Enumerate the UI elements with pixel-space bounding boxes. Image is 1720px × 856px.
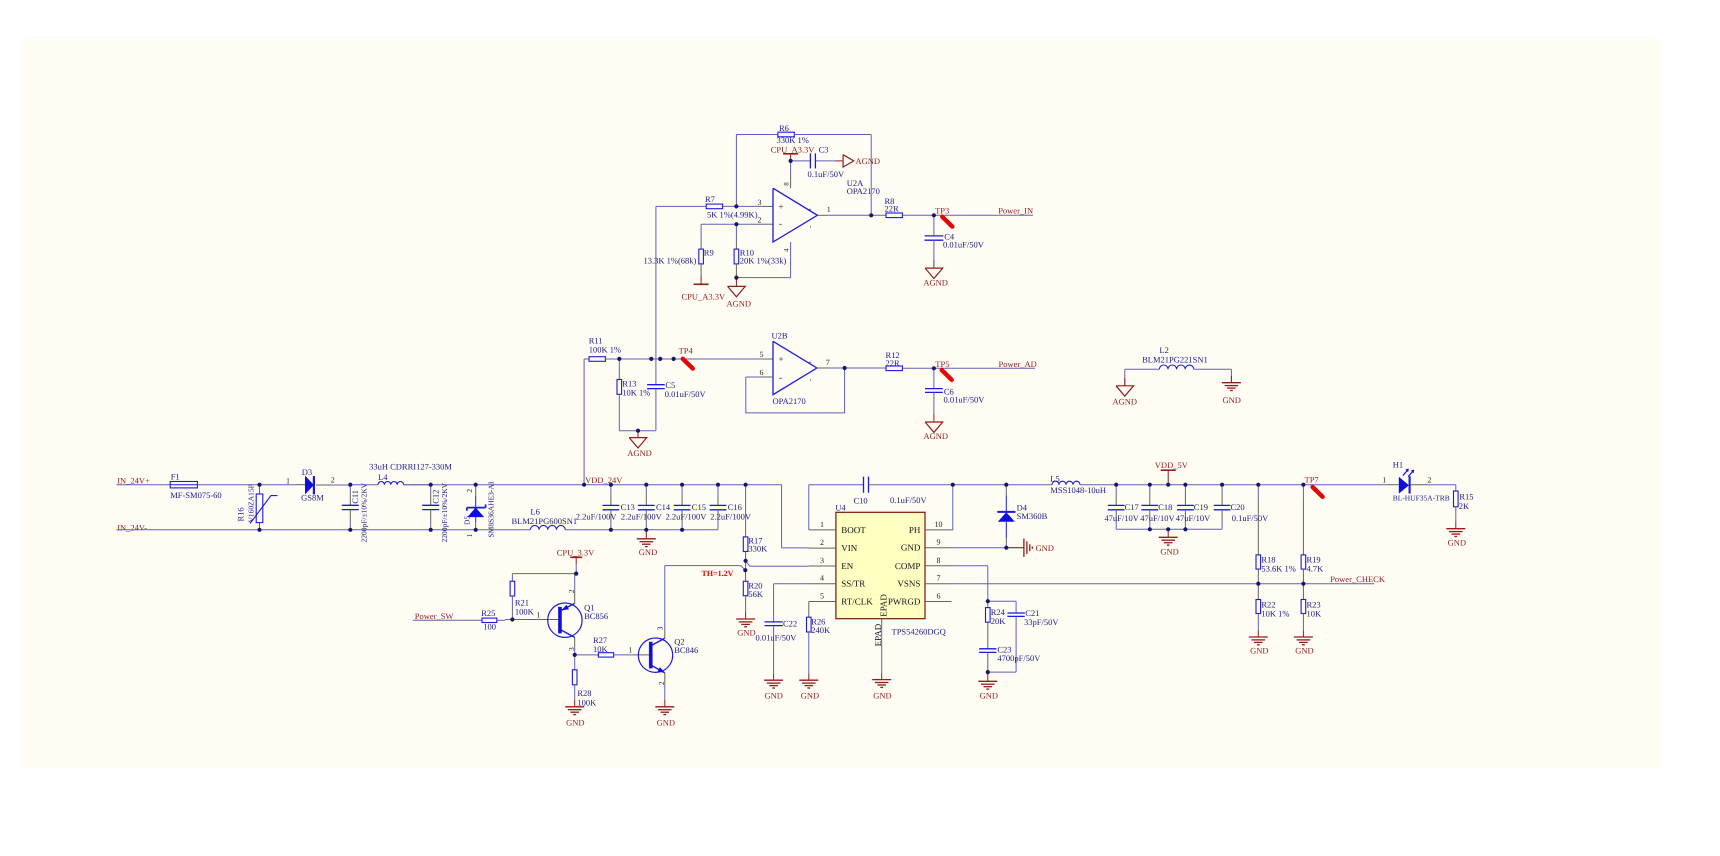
svg-text:47uF/10V: 47uF/10V: [1140, 513, 1175, 523]
svg-text:2K: 2K: [1459, 501, 1470, 511]
svg-text:TP5: TP5: [935, 359, 949, 369]
svg-text:GND: GND: [901, 543, 921, 553]
svg-text:0.01uF/50V: 0.01uF/50V: [944, 394, 986, 404]
svg-text:GND: GND: [1448, 538, 1466, 548]
svg-text:-: -: [779, 220, 782, 230]
svg-text:2200pF/±10%/2KV: 2200pF/±10%/2KV: [360, 482, 369, 542]
svg-text:9: 9: [937, 538, 941, 547]
svg-text:AGND: AGND: [627, 448, 652, 458]
svg-text:6: 6: [937, 592, 941, 601]
svg-text:GND: GND: [1295, 646, 1313, 656]
svg-text:CPU_A3.3V: CPU_A3.3V: [771, 144, 816, 154]
svg-text:R7: R7: [705, 194, 715, 204]
svg-text:MSS1048-10uH: MSS1048-10uH: [1050, 485, 1106, 495]
svg-text:47uF/10V: 47uF/10V: [1104, 513, 1139, 523]
svg-text:56K: 56K: [748, 589, 764, 599]
svg-text:BC846: BC846: [674, 645, 698, 655]
svg-text:+: +: [779, 354, 784, 364]
svg-text:AGND: AGND: [1113, 396, 1138, 406]
svg-text:L5: L5: [1050, 473, 1059, 483]
svg-text:RT/CLK: RT/CLK: [841, 597, 873, 607]
svg-text:+: +: [779, 201, 784, 211]
svg-text:100: 100: [483, 622, 496, 632]
svg-text:V160ZA15P: V160ZA15P: [247, 484, 256, 522]
svg-text:4700pF/50V: 4700pF/50V: [997, 653, 1041, 663]
svg-text:GND: GND: [639, 547, 657, 557]
svg-text:1: 1: [537, 610, 541, 619]
svg-text:AGND: AGND: [923, 277, 948, 287]
svg-text:U2B: U2B: [772, 330, 788, 340]
svg-text:2: 2: [657, 681, 666, 685]
svg-text:2.2uF/100V: 2.2uF/100V: [666, 511, 708, 521]
svg-text:3: 3: [820, 556, 824, 565]
svg-text:PWRGD: PWRGD: [888, 597, 921, 607]
svg-text:10: 10: [935, 520, 943, 529]
svg-text:1: 1: [629, 645, 633, 654]
svg-text:GND: GND: [657, 717, 675, 727]
svg-text:2: 2: [758, 216, 762, 225]
svg-text:8: 8: [783, 182, 791, 186]
svg-text:53.6K 1%: 53.6K 1%: [1261, 564, 1295, 574]
svg-text:5: 5: [760, 350, 764, 359]
svg-text:2.2uF/100V: 2.2uF/100V: [576, 511, 618, 521]
svg-text:240K: 240K: [811, 625, 831, 635]
svg-text:Power_IN: Power_IN: [998, 206, 1033, 216]
svg-text:PH: PH: [909, 525, 921, 535]
svg-text:GND: GND: [737, 627, 755, 637]
svg-text:Power_CHECK: Power_CHECK: [1330, 574, 1386, 584]
svg-text:EN: EN: [841, 561, 853, 571]
svg-text:330K: 330K: [748, 544, 768, 554]
svg-text:C22: C22: [783, 619, 797, 629]
svg-text:100K: 100K: [577, 697, 597, 707]
svg-text:10K: 10K: [593, 644, 609, 654]
svg-text:1: 1: [286, 476, 290, 485]
svg-text:2: 2: [465, 489, 474, 493]
svg-text:47uF/10V: 47uF/10V: [1176, 513, 1211, 523]
svg-text:100K 1%: 100K 1%: [589, 344, 621, 354]
svg-text:GND: GND: [765, 691, 783, 701]
svg-text:0.1uF/50V: 0.1uF/50V: [1232, 513, 1269, 523]
svg-text:6: 6: [760, 368, 764, 377]
svg-text:0.01uF/50V: 0.01uF/50V: [943, 240, 985, 250]
svg-text:C11: C11: [350, 490, 360, 504]
svg-text:TPS54260DGQ: TPS54260DGQ: [892, 626, 946, 636]
svg-text:GND: GND: [1160, 546, 1178, 556]
svg-text:0.01uF/50V: 0.01uF/50V: [665, 389, 707, 399]
svg-text:EPAD: EPAD: [873, 623, 883, 646]
svg-text:GND: GND: [566, 717, 584, 727]
svg-text:GND: GND: [1250, 646, 1268, 656]
svg-text:VDD_24V: VDD_24V: [585, 475, 623, 485]
svg-text:10K: 10K: [1307, 609, 1323, 619]
svg-text:R9: R9: [704, 247, 714, 257]
svg-text:3: 3: [758, 198, 762, 207]
svg-text:20K 1%(33k): 20K 1%(33k): [740, 256, 787, 266]
svg-text:SM8S36AHE3-AI: SM8S36AHE3-AI: [487, 481, 496, 537]
svg-text:GND: GND: [801, 691, 819, 701]
svg-text:TP7: TP7: [1305, 475, 1319, 485]
svg-text:CPU_3.3V: CPU_3.3V: [557, 547, 595, 557]
svg-text:OPA2170: OPA2170: [773, 396, 806, 406]
svg-text:AGND: AGND: [856, 156, 881, 166]
svg-text:33pF/50V: 33pF/50V: [1024, 617, 1059, 627]
svg-text:2200pF/±10%/2KV: 2200pF/±10%/2KV: [440, 482, 449, 542]
svg-text:1: 1: [465, 533, 474, 537]
svg-text:H1: H1: [1393, 459, 1403, 469]
svg-text:R16: R16: [236, 507, 246, 521]
svg-text:OPA2170: OPA2170: [847, 186, 880, 196]
svg-text:GND: GND: [1223, 395, 1241, 405]
svg-text:C19: C19: [1194, 502, 1208, 512]
svg-text:Power_AD: Power_AD: [999, 359, 1037, 369]
svg-text:D3: D3: [302, 467, 312, 477]
svg-text:IN_24V+: IN_24V+: [117, 475, 150, 485]
svg-text:1: 1: [827, 205, 831, 214]
svg-text:BOOT: BOOT: [841, 525, 866, 535]
svg-text:7: 7: [826, 358, 830, 367]
svg-text:R6: R6: [779, 123, 789, 133]
svg-text:13.3K 1%(68k): 13.3K 1%(68k): [644, 256, 697, 266]
svg-text:SM360B: SM360B: [1017, 511, 1048, 521]
svg-text:7: 7: [937, 574, 941, 583]
svg-text:3: 3: [567, 647, 576, 651]
svg-text:CPU_A3.3V: CPU_A3.3V: [682, 292, 727, 302]
svg-text:MF-SM075-60: MF-SM075-60: [170, 490, 221, 500]
svg-text:2.2uF/100V: 2.2uF/100V: [621, 511, 663, 521]
svg-text:-: -: [779, 374, 782, 384]
svg-text:100K: 100K: [515, 606, 535, 616]
svg-text:2: 2: [567, 589, 576, 593]
svg-text:1: 1: [1382, 475, 1386, 484]
svg-text:R25: R25: [481, 608, 495, 618]
svg-text:GND: GND: [980, 691, 998, 701]
svg-text:VIN: VIN: [841, 543, 857, 553]
svg-text:VSNS: VSNS: [897, 579, 920, 589]
svg-text:C20: C20: [1231, 502, 1245, 512]
svg-text:VDD_5V: VDD_5V: [1155, 460, 1189, 470]
svg-text:5K 1%(4.99K): 5K 1%(4.99K): [707, 209, 758, 219]
svg-text:TP3: TP3: [935, 206, 949, 216]
svg-text:0.1uF/50V: 0.1uF/50V: [808, 169, 845, 179]
svg-text:20K: 20K: [991, 616, 1007, 626]
svg-text:8: 8: [937, 556, 941, 565]
svg-text:AGND: AGND: [727, 298, 752, 308]
svg-text:GND: GND: [1036, 543, 1054, 553]
svg-text:C3: C3: [819, 144, 829, 154]
svg-text:BC856: BC856: [584, 611, 608, 621]
svg-text:TH=1.2V: TH=1.2V: [702, 569, 734, 578]
svg-text:C10: C10: [854, 496, 868, 506]
svg-text:Power_SW: Power_SW: [415, 611, 454, 621]
svg-text:U4: U4: [835, 502, 846, 512]
svg-text:COMP: COMP: [895, 561, 921, 571]
svg-text:IN_24V-: IN_24V-: [117, 523, 147, 533]
svg-text:F1: F1: [171, 472, 180, 482]
svg-text:SS/TR: SS/TR: [841, 579, 865, 589]
svg-text:BLM21PG221SN1: BLM21PG221SN1: [1142, 354, 1208, 364]
svg-text:C17: C17: [1125, 502, 1139, 512]
svg-text:0.01uF/50V: 0.01uF/50V: [756, 632, 798, 642]
svg-text:4: 4: [820, 574, 824, 583]
svg-text:EPAD: EPAD: [879, 594, 889, 617]
svg-text:22R: 22R: [885, 204, 900, 214]
svg-text:0.1uF/50V: 0.1uF/50V: [890, 495, 927, 505]
svg-text:2: 2: [1427, 476, 1431, 485]
svg-text:C12: C12: [430, 490, 440, 504]
svg-text:TP4: TP4: [679, 345, 694, 355]
svg-text:22R: 22R: [886, 358, 901, 368]
svg-text:L4: L4: [378, 472, 388, 482]
svg-text:GND: GND: [873, 691, 891, 701]
svg-text:2: 2: [331, 475, 335, 484]
svg-text:10K 1%: 10K 1%: [1261, 609, 1289, 619]
svg-text:GS8M: GS8M: [301, 493, 324, 503]
svg-text:10K 1%: 10K 1%: [622, 388, 650, 398]
svg-text:1: 1: [820, 520, 824, 529]
svg-text:C18: C18: [1158, 502, 1172, 512]
svg-text:BL-HUF35A-TRB: BL-HUF35A-TRB: [1393, 494, 1450, 503]
svg-text:33uH CDRRI127-330M: 33uH CDRRI127-330M: [369, 462, 452, 472]
svg-text:AGND: AGND: [924, 431, 949, 441]
svg-text:R15: R15: [1459, 491, 1473, 501]
svg-text:D5: D5: [463, 516, 472, 525]
svg-text:BLM21PG600SN1: BLM21PG600SN1: [512, 516, 578, 526]
svg-text:5: 5: [820, 592, 824, 601]
svg-text:2: 2: [820, 538, 824, 547]
svg-text:4: 4: [783, 248, 791, 252]
svg-text:4.7K: 4.7K: [1307, 564, 1325, 574]
svg-text:3: 3: [656, 626, 665, 630]
